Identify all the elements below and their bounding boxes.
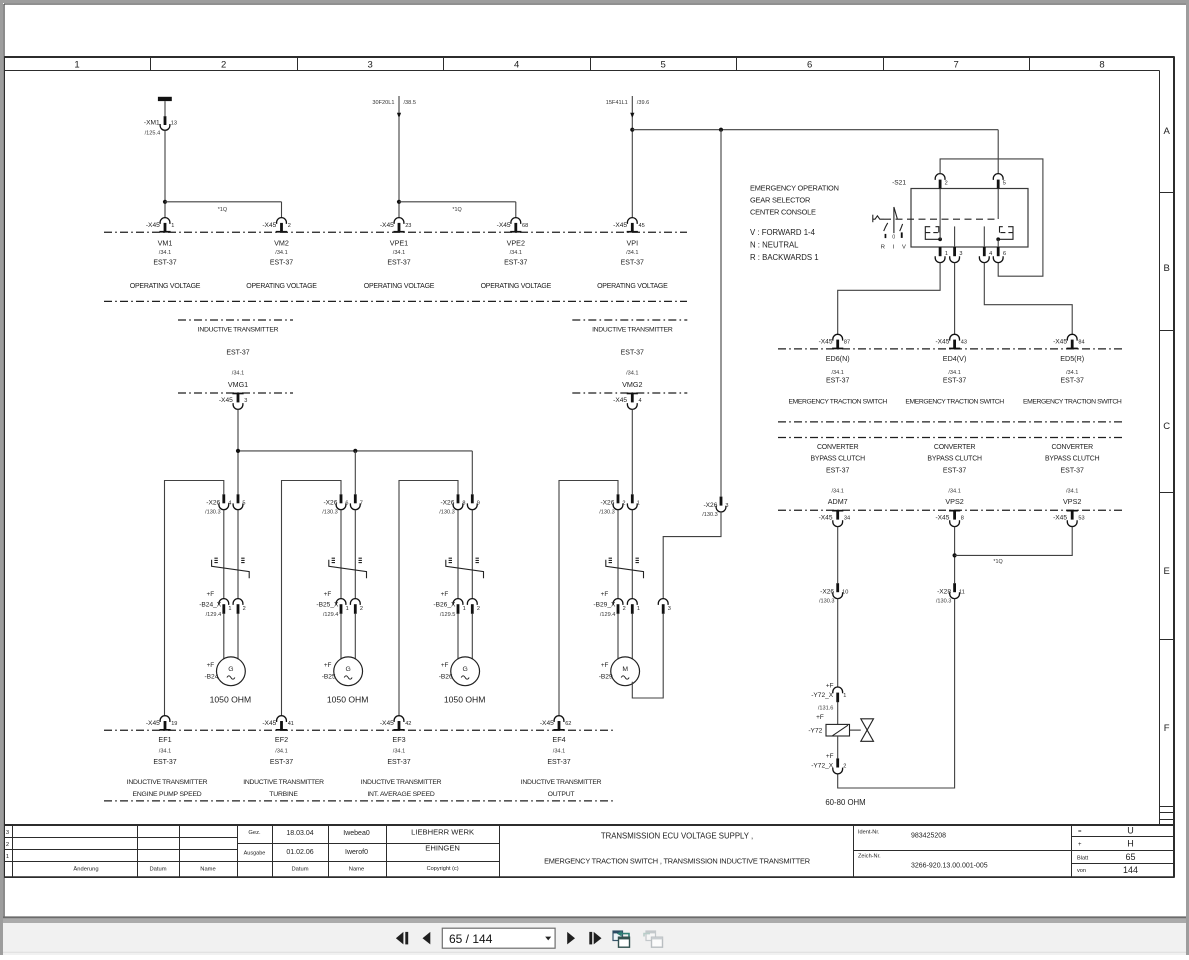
- svg-text:V : FORWARD 1-4: V : FORWARD 1-4: [750, 228, 816, 237]
- inductive sensor B25 (G): [322, 657, 363, 686]
- svg-text:Name: Name: [349, 867, 364, 873]
- svg-text:ED5(R): ED5(R): [1060, 354, 1084, 363]
- svg-text:Datum: Datum: [291, 867, 308, 873]
- ECU boundary dash-dot line (ADM/VPS row): [778, 509, 1124, 511]
- svg-text:ADM7: ADM7: [828, 497, 848, 506]
- svg-text:34: 34: [844, 515, 850, 521]
- svg-text:/34.1: /34.1: [626, 250, 638, 256]
- svg-text:2: 2: [477, 606, 480, 612]
- label VM1 / EST-37 / OPERATING VOLTAGE: [130, 238, 201, 290]
- node VPS2 bus junction: [953, 553, 957, 557]
- svg-text:10: 10: [842, 589, 848, 595]
- svg-text:-X26: -X26: [820, 588, 834, 595]
- label VM2 / EST-37 / OPERATING VOLTAGE: [246, 238, 317, 290]
- svg-text:EMERGENCY TRACTION SWITCH: EMERGENCY TRACTION SWITCH: [789, 398, 888, 405]
- svg-text:983425208: 983425208: [911, 833, 946, 840]
- svg-text:+F: +F: [826, 682, 834, 689]
- connector -X26 pin 10 (Y72 supply): [819, 583, 848, 604]
- connector -X45 pin 3 (VMG1): [219, 393, 247, 410]
- wire S21 pin 4 to ED5: [984, 263, 1072, 335]
- wire return loop B29 to EF connector: [559, 481, 618, 716]
- svg-text:6: 6: [1003, 251, 1006, 257]
- svg-text:2: 2: [221, 59, 226, 70]
- cable shield symbol: [446, 558, 484, 578]
- svg-text:G: G: [346, 666, 351, 673]
- label EF3 / EST-37 / INDUCTIVE TRANSMITTER INT. AVERAGE SPEED: [361, 735, 442, 798]
- dash-dot boundary above VMG2: [572, 319, 687, 321]
- svg-text:EHINGEN: EHINGEN: [425, 844, 460, 853]
- solenoid valve Y72 coil: [808, 714, 849, 736]
- S21 pin 3 (bottom): [950, 247, 963, 263]
- svg-text:F: F: [1164, 723, 1170, 734]
- svg-text:CENTER CONSOLE: CENTER CONSOLE: [750, 207, 816, 216]
- svg-text:Zeich-Nr.: Zeich-Nr.: [858, 854, 881, 860]
- svg-text:BYPASS CLUTCH: BYPASS CLUTCH: [811, 456, 866, 463]
- svg-text:/39.6: /39.6: [637, 100, 649, 106]
- svg-text:R: R: [881, 244, 885, 250]
- toolbar first/prev page buttons: [396, 932, 430, 945]
- svg-text:+F: +F: [324, 591, 332, 598]
- svg-text:OPERATING VOLTAGE: OPERATING VOLTAGE: [130, 283, 201, 290]
- svg-text:3: 3: [244, 398, 247, 404]
- label ED5(R) / EST-37 / EMERGENCY TRACTION SWITCH: [1023, 354, 1122, 405]
- svg-text:/125.4: /125.4: [145, 130, 161, 136]
- S21 contact (left, N): [925, 227, 940, 240]
- label VPE2 / EST-37 / OPERATING VOLTAGE: [481, 238, 552, 290]
- svg-text:ED6(N): ED6(N): [826, 354, 850, 363]
- wire ADM7 down to X26-10: [837, 527, 839, 584]
- svg-text:INDUCTIVE TRANSMITTER: INDUCTIVE TRANSMITTER: [127, 779, 208, 786]
- svg-text:1: 1: [228, 606, 231, 612]
- wire S21 pin 3 to ED4: [954, 263, 956, 335]
- label VPI / EST-37 / OPERATING VOLTAGE: [597, 238, 668, 290]
- svg-text:Iwerof0: Iwerof0: [345, 849, 368, 856]
- svg-text:Datum: Datum: [149, 867, 166, 873]
- inductive sensor B24 (G): [204, 657, 245, 686]
- dash-dot boundary below VMG2: [572, 392, 687, 394]
- switch S21 body: [892, 179, 1028, 247]
- svg-text:OPERATING VOLTAGE: OPERATING VOLTAGE: [246, 283, 317, 290]
- svg-text:OPERATING VOLTAGE: OPERATING VOLTAGE: [481, 283, 552, 290]
- svg-text:-X45: -X45: [540, 720, 554, 727]
- wire S21 pin 6 from contact: [997, 239, 999, 247]
- toolbar previous-view icon: [613, 931, 630, 948]
- svg-text:01.02.06: 01.02.06: [286, 849, 313, 856]
- svg-text:INDUCTIVE TRANSMITTER: INDUCTIVE TRANSMITTER: [198, 327, 279, 334]
- svg-text:-X45: -X45: [1053, 339, 1067, 346]
- svg-text:VMG2: VMG2: [622, 380, 642, 389]
- dash-dot boundary below VMG1: [178, 392, 293, 394]
- note EMERGENCY OPERATION GEAR SELECTOR: [750, 183, 839, 261]
- svg-text:EST-37: EST-37: [226, 349, 249, 356]
- svg-text:/34.1: /34.1: [275, 748, 287, 754]
- svg-text:/129.4: /129.4: [600, 612, 616, 618]
- node bus junction to B25: [353, 449, 357, 453]
- svg-text:G: G: [463, 666, 468, 673]
- svg-text:EST-37: EST-37: [270, 260, 293, 267]
- S21 mechanical link (dashed): [884, 218, 998, 220]
- svg-text:-X45: -X45: [819, 514, 833, 521]
- toolbar next-view icon (disabled): [644, 931, 663, 947]
- svg-text:/34.1: /34.1: [232, 371, 244, 377]
- svg-text:E: E: [1164, 566, 1170, 577]
- cable shield symbol: [329, 558, 367, 578]
- svg-text:3: 3: [668, 606, 671, 612]
- svg-text:VPE1: VPE1: [390, 238, 408, 247]
- svg-text:V: V: [902, 244, 906, 250]
- svg-text:/130.3: /130.3: [599, 510, 615, 516]
- wire B29_X to sensor (left): [617, 614, 619, 659]
- connector B29_X pin 3: [658, 599, 671, 614]
- svg-text:EST-37: EST-37: [153, 759, 176, 766]
- wire return loop B25 to EF connector: [282, 481, 342, 716]
- svg-text:0: 0: [892, 235, 895, 241]
- wire Y72_X1 to coil: [837, 702, 839, 725]
- svg-text:-X26: -X26: [323, 500, 337, 507]
- S21 pin 4 (bottom): [979, 247, 992, 263]
- S21 pin 5 (top): [993, 174, 1006, 189]
- svg-text:EST-37: EST-37: [387, 759, 410, 766]
- svg-text:-X45: -X45: [497, 222, 511, 229]
- svg-text:1050 OHM: 1050 OHM: [444, 695, 486, 705]
- connector Y72_X pin 1: [811, 682, 846, 699]
- svg-text:-Y72: -Y72: [808, 727, 822, 734]
- svg-text:EF4: EF4: [552, 735, 565, 744]
- wire B29_X pin 3 to B29 bottom: [632, 614, 663, 698]
- svg-text:3: 3: [725, 503, 728, 509]
- svg-text:R : BACKWARDS 1: R : BACKWARDS 1: [750, 253, 819, 262]
- svg-text:VPS2: VPS2: [945, 497, 963, 506]
- svg-text:/130.3: /130.3: [322, 510, 338, 516]
- svg-text:-X26: -X26: [600, 500, 614, 507]
- S21 selector lever with positions R 0 V: [873, 207, 903, 233]
- connector B24_X pin 2: [233, 599, 246, 614]
- sensor supply bus from VMG1: [238, 450, 472, 452]
- svg-text:-X45: -X45: [146, 720, 160, 727]
- label EF4 / EST-37 / INDUCTIVE TRANSMITTER OUTPUT: [521, 735, 602, 798]
- wire VPE1 junction to VPE2: [399, 201, 516, 203]
- svg-text:VPI: VPI: [627, 238, 639, 247]
- svg-text:EST-37: EST-37: [1061, 467, 1084, 474]
- svg-text:+F: +F: [324, 662, 332, 669]
- ECU boundary dash-dot line (EF row): [104, 729, 616, 731]
- connector Y72_X pin 2: [811, 753, 846, 774]
- wire B26_X to sensor (right): [471, 614, 473, 659]
- connector None pin 9 (B26): [467, 494, 479, 509]
- svg-text:-X45: -X45: [219, 397, 233, 404]
- label INDUCTIVE TRANSMITTER / EST-37 / VMG1: [198, 327, 279, 389]
- svg-text:/34.1: /34.1: [393, 250, 405, 256]
- label EF1 / EST-37 / INDUCTIVE TRANSMITTER ENGINE PUMP SPEED: [127, 735, 208, 798]
- svg-text:5: 5: [661, 59, 666, 70]
- svg-text:1: 1: [843, 693, 846, 699]
- svg-text:+F: +F: [601, 591, 609, 598]
- ECU boundary dash-dot line (ED row): [778, 348, 1124, 350]
- label EF2 / EST-37 / INDUCTIVE TRANSMITTER TURBINE: [243, 735, 324, 798]
- svg-text:-X45: -X45: [146, 222, 160, 229]
- svg-text:4: 4: [639, 398, 642, 404]
- wire return loop B24 to EF connector: [165, 481, 224, 716]
- svg-text:EST-37: EST-37: [547, 759, 570, 766]
- wire bus drop to B26 right pin: [471, 451, 473, 494]
- incoming feed arrow 15F41L1 /39.6: [606, 96, 650, 118]
- svg-text:/130.3: /130.3: [205, 510, 221, 516]
- svg-text:C: C: [1163, 421, 1170, 432]
- wire S21 pin 2 through contact: [939, 189, 941, 240]
- wire S21 pin 5 into switch: [997, 189, 999, 220]
- connector -X45 pin 62 (EF4): [540, 716, 572, 731]
- wire VPS2 down to X28-11: [954, 527, 956, 584]
- wire X26 to B26_X (left): [457, 510, 459, 599]
- svg-text:4: 4: [514, 59, 519, 70]
- svg-text:+F: +F: [441, 662, 449, 669]
- svg-text:Ident-Nr.: Ident-Nr.: [858, 830, 880, 836]
- connector -X45 pin 87 (ED6(N)): [819, 334, 851, 349]
- S21 pin 1 (bottom): [935, 247, 948, 263]
- svg-text:BYPASS CLUTCH: BYPASS CLUTCH: [1045, 456, 1100, 463]
- svg-text:Name: Name: [200, 867, 215, 873]
- svg-text:4: 4: [228, 501, 231, 507]
- svg-text:/34.1: /34.1: [626, 371, 638, 377]
- wire S21 pin 1 to ED6: [838, 263, 940, 335]
- wire B25_X to sensor (left): [340, 614, 342, 659]
- wire S21 top rail (pin2 to outer loop): [940, 159, 1043, 276]
- svg-text:-X26: -X26: [440, 500, 454, 507]
- svg-text:/34.1: /34.1: [393, 748, 405, 754]
- dash-dot boundary above VMG1: [178, 319, 293, 321]
- svg-text:/34.1: /34.1: [948, 370, 960, 376]
- svg-text:/34.1: /34.1: [1066, 370, 1078, 376]
- connector B29_X pin 1: [627, 599, 640, 614]
- wire XM1 to VM1/VM2 junction: [164, 130, 166, 202]
- svg-text:84: 84: [1078, 340, 1084, 346]
- svg-text:CONVERTER: CONVERTER: [817, 444, 859, 451]
- node VM bus junction: [163, 200, 167, 204]
- svg-text:EF3: EF3: [392, 735, 405, 744]
- connector None pin 5 (B24): [233, 494, 245, 509]
- svg-text:-X45: -X45: [380, 222, 394, 229]
- dash-dot line below EMERGENCY TRACTION SWITCH: [778, 421, 1124, 423]
- svg-text:1: 1: [945, 251, 948, 257]
- svg-text:EST-37: EST-37: [826, 377, 849, 384]
- svg-text:EMERGENCY TRACTION SWITCH: EMERGENCY TRACTION SWITCH: [905, 398, 1004, 405]
- svg-text:1: 1: [637, 606, 640, 612]
- svg-text:*1Q: *1Q: [218, 207, 227, 213]
- svg-text:-X45: -X45: [935, 339, 949, 346]
- svg-text:4: 4: [989, 251, 992, 257]
- wire 15F41L1 down to VPI: [631, 117, 633, 218]
- node VPI supply junction: [630, 128, 634, 132]
- ECU boundary dash-dot line (row 2): [104, 300, 687, 302]
- svg-text:2: 2: [945, 180, 948, 186]
- svg-text:EST-37: EST-37: [153, 260, 176, 267]
- svg-text:-Y72_X: -Y72_X: [811, 692, 834, 699]
- svg-text:-S21: -S21: [892, 179, 906, 186]
- svg-text:/130.3: /130.3: [439, 510, 455, 516]
- svg-text:VPE2: VPE2: [507, 238, 525, 247]
- svg-text:Änderung: Änderung: [73, 866, 98, 873]
- wire B25_X to sensor (right): [354, 614, 356, 659]
- svg-text:1: 1: [6, 854, 9, 860]
- svg-text:EST-37: EST-37: [387, 260, 410, 267]
- svg-text:EST-37: EST-37: [621, 349, 644, 356]
- svg-text:18.03.04: 18.03.04: [286, 830, 313, 837]
- wire X28-11 down to bottom loop: [838, 599, 955, 788]
- svg-text:-Y72_X: -Y72_X: [811, 763, 834, 770]
- connector -X45 pin 42 (EF3): [380, 716, 412, 731]
- wire X26 to B29_X (left): [617, 510, 619, 599]
- connector -X26 pin 8 (B26): [439, 494, 465, 515]
- cable shield symbol: [606, 558, 644, 578]
- svg-text:2: 2: [243, 606, 246, 612]
- svg-text:EST-37: EST-37: [504, 260, 527, 267]
- dash-dot line above CONVERTER BYPASS CLUTCH: [778, 437, 1124, 439]
- svg-text:+: +: [1078, 842, 1082, 848]
- svg-text:144: 144: [1123, 865, 1138, 875]
- svg-text:11: 11: [959, 589, 965, 595]
- svg-text:/34.1: /34.1: [948, 488, 960, 494]
- svg-text:30F20L1: 30F20L1: [372, 100, 394, 106]
- wire X26 to B26_X (right): [471, 510, 473, 599]
- S21 pin 2 (top): [935, 174, 948, 189]
- svg-text:/34.1: /34.1: [1066, 488, 1078, 494]
- svg-text:Ausgabe: Ausgabe: [244, 850, 266, 856]
- S21 pin 6 (bottom): [993, 247, 1006, 263]
- wire X26-10 down to Y72_X1: [837, 599, 839, 687]
- svg-text:8: 8: [1099, 59, 1104, 70]
- svg-text:2: 2: [360, 606, 363, 612]
- ECU boundary dash-dot line (row 1): [104, 231, 687, 233]
- svg-text:*1Q: *1Q: [452, 207, 461, 213]
- svg-text:EST-37: EST-37: [943, 467, 966, 474]
- svg-text:INT. AVERAGE SPEED: INT. AVERAGE SPEED: [367, 791, 435, 798]
- svg-text:/34.1: /34.1: [831, 370, 843, 376]
- svg-text:BYPASS CLUTCH: BYPASS CLUTCH: [927, 456, 982, 463]
- dash-dot line below EF labels: [104, 800, 616, 802]
- connector -X45 pin 1 (VM1): [146, 218, 174, 233]
- wire B24_X to sensor (left): [223, 614, 225, 659]
- svg-text:B: B: [1164, 263, 1170, 274]
- svg-text:INDUCTIVE TRANSMITTER: INDUCTIVE TRANSMITTER: [521, 779, 602, 786]
- connector -X45 pin 68 (VPE2): [497, 218, 529, 233]
- valve symbol (bowtie): [861, 719, 874, 742]
- svg-text:CONVERTER: CONVERTER: [934, 444, 976, 451]
- wire X26 to B24_X (right): [237, 510, 239, 599]
- svg-text:/130.3: /130.3: [702, 512, 718, 518]
- svg-text:-X26: -X26: [703, 502, 717, 509]
- connector -X26 pin 6 (B25): [322, 494, 348, 515]
- svg-text:2: 2: [622, 501, 625, 507]
- svg-text:3: 3: [368, 59, 373, 70]
- wire VPI junction to S21 pin 5: [632, 129, 998, 131]
- svg-text:Copyright (c): Copyright (c): [427, 866, 459, 872]
- wire S21 pin 4 pole: [983, 226, 985, 247]
- connector -X45 pin 8 (VPS2): [935, 510, 963, 527]
- svg-text:65 / 144: 65 / 144: [449, 932, 493, 946]
- node bus junction at VMG1: [236, 449, 240, 453]
- svg-text:60-80 OHM: 60-80 OHM: [825, 798, 865, 807]
- svg-text:EST-37: EST-37: [826, 467, 849, 474]
- svg-text:5: 5: [1003, 180, 1006, 186]
- svg-text:INDUCTIVE TRANSMITTER: INDUCTIVE TRANSMITTER: [243, 779, 324, 786]
- svg-text:/129.4: /129.4: [206, 612, 222, 618]
- svg-text:TRANSMISSION ECU VOLTAGE SUPPL: TRANSMISSION ECU VOLTAGE SUPPLY ,: [601, 832, 753, 841]
- svg-text:U: U: [1127, 826, 1134, 836]
- svg-text:1: 1: [463, 606, 466, 612]
- label CONVERTER BYPASS CLUTCH EST-37 (VPS2): [927, 444, 982, 506]
- connector -X28 pin 11 (Y72 return): [936, 583, 965, 604]
- svg-text:Iwebea0: Iwebea0: [343, 830, 370, 837]
- wire VPS2 junction to right VPS2: [955, 527, 1073, 556]
- wire return loop B26 to EF connector: [399, 481, 458, 716]
- toolbar next/last page buttons: [567, 932, 601, 945]
- wire junction to VPE1: [398, 202, 400, 218]
- label INDUCTIVE TRANSMITTER / EST-37 / VMG2: [592, 327, 673, 389]
- svg-text:/131.6: /131.6: [818, 705, 834, 711]
- svg-text:+F: +F: [826, 753, 834, 760]
- wire 30F20L1 to VPE1/VPE2 junction: [398, 117, 400, 202]
- connector -X45 pin 23 (VPE1): [380, 218, 412, 233]
- svg-text:68: 68: [522, 223, 528, 229]
- svg-text:23: 23: [405, 223, 411, 229]
- svg-text:+F: +F: [601, 662, 609, 669]
- svg-text:-X45: -X45: [935, 514, 949, 521]
- wire VMG2 down: [631, 409, 633, 494]
- svg-text:19: 19: [171, 721, 177, 727]
- wire coil to Y72_X2: [837, 736, 839, 758]
- svg-text:GEAR SELECTOR: GEAR SELECTOR: [750, 195, 810, 204]
- svg-text:6: 6: [807, 59, 812, 70]
- svg-text:-XM1: -XM1: [144, 119, 160, 126]
- svg-text:3: 3: [6, 830, 9, 836]
- svg-text:OUTPUT: OUTPUT: [548, 791, 575, 798]
- connector -X26 pin 4 (B24): [205, 494, 231, 515]
- svg-text:/34.1: /34.1: [553, 748, 565, 754]
- svg-text:7: 7: [954, 59, 959, 70]
- svg-text:VM1: VM1: [158, 238, 173, 247]
- svg-text:OPERATING VOLTAGE: OPERATING VOLTAGE: [364, 283, 435, 290]
- svg-text:1: 1: [346, 606, 349, 612]
- svg-text:-X45: -X45: [819, 339, 833, 346]
- connector None pin 1 (B29): [627, 494, 639, 509]
- wire B24_X to sensor (right): [237, 614, 239, 659]
- svg-text:Blatt: Blatt: [1077, 855, 1089, 861]
- svg-text:-X45: -X45: [262, 222, 276, 229]
- wire X26 to B29_X (right): [631, 510, 633, 599]
- connector -X26 pin 2 (B29): [599, 494, 625, 515]
- svg-text:1: 1: [637, 501, 640, 507]
- svg-text:45: 45: [639, 223, 645, 229]
- wire VPI junction down to X26 pin 3: [720, 130, 722, 497]
- svg-text:-X26: -X26: [206, 500, 220, 507]
- svg-text:ENGINE PUMP SPEED: ENGINE PUMP SPEED: [133, 791, 202, 798]
- svg-text:CONVERTER: CONVERTER: [1052, 444, 1094, 451]
- label ED4(V) / EST-37 / EMERGENCY TRACTION SWITCH: [905, 354, 1004, 405]
- svg-text:/130.3: /130.3: [936, 598, 952, 604]
- connector -X45 pin 41 (EF2): [262, 716, 294, 731]
- wire junction to VM1: [164, 202, 166, 218]
- connector -X45 pin 2 (VM2): [262, 218, 290, 233]
- svg-text:M: M: [622, 666, 628, 673]
- svg-text:LIEBHERR WERK: LIEBHERR WERK: [411, 828, 474, 837]
- svg-text:EST-37: EST-37: [943, 377, 966, 384]
- connector -X45 pin 34 (ADM7): [819, 510, 851, 527]
- svg-text:TURBINE: TURBINE: [269, 791, 298, 798]
- wire X26 to B25_X (left): [340, 510, 342, 599]
- cable shield symbol: [212, 558, 250, 578]
- wire S21 pin 3 pole: [954, 226, 956, 247]
- svg-text:8: 8: [462, 501, 465, 507]
